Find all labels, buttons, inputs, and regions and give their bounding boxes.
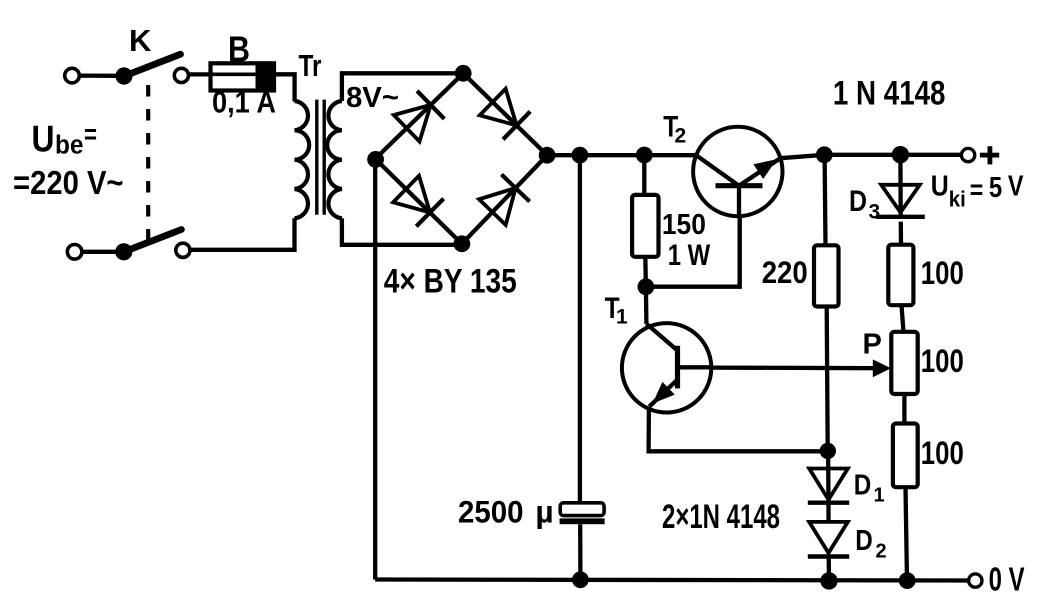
wire secondary bottom to bridge: [342, 218, 462, 245]
svg-text:1: 1: [616, 306, 628, 329]
wire resistor 220 to D1 node: [827, 307, 828, 452]
switch K bottom pole: [115, 230, 190, 261]
wire minus vertical from bridge left: [373, 159, 377, 580]
bridge diode D-a (upper left): [394, 91, 445, 142]
wire D3 to resistor 100a: [899, 222, 904, 245]
svg-text:P: P: [863, 329, 882, 361]
bridge diode D-b (upper right): [480, 89, 531, 140]
svg-text:3: 3: [869, 201, 881, 224]
label 0,1 A: [212, 85, 276, 120]
resistor 150 1W: [632, 195, 658, 257]
transistor T1: [622, 323, 712, 412]
label 100b: [921, 343, 964, 379]
label Tr: [299, 48, 322, 83]
label 150: [662, 209, 706, 241]
wire switch to fuse: [189, 72, 212, 76]
svg-text:K: K: [129, 23, 152, 58]
resistor 100c: [893, 424, 918, 488]
label D1: [854, 470, 885, 507]
wire resistor 100c to bottom rail: [906, 487, 908, 580]
node bridge top (AC): [455, 65, 472, 82]
svg-text:U: U: [931, 171, 949, 203]
output terminal 0V: [969, 574, 982, 587]
wire resistor 150 to node: [643, 257, 648, 287]
label 220: [762, 254, 808, 290]
resistor 100a: [888, 245, 913, 306]
label P: [863, 329, 882, 361]
bridge wire top-right: [463, 73, 547, 155]
svg-text:=: =: [970, 174, 984, 205]
bridge wire bottom-left: [375, 159, 462, 244]
label K: [129, 23, 152, 58]
svg-text:1 N 4148: 1 N 4148: [833, 74, 946, 112]
label 1 N 4148: [833, 74, 946, 112]
node bridge right (plus): [539, 147, 556, 164]
label 2500 u: [458, 493, 554, 529]
wire positive rail left part: [547, 153, 696, 157]
label 100a: [921, 255, 964, 291]
node D3 branch: [892, 146, 909, 163]
label T1: [605, 292, 628, 329]
svg-text:D: D: [855, 525, 873, 557]
wire D2 to bottom rail: [827, 557, 832, 581]
svg-text:1 W: 1 W: [668, 239, 711, 272]
svg-text:U: U: [32, 118, 55, 160]
svg-text:be: be: [55, 132, 84, 160]
wire resistor 100a to potentiometer: [902, 305, 904, 332]
node 220 resistor branch: [816, 146, 833, 163]
svg-text:D: D: [849, 185, 867, 218]
label D3: [849, 185, 880, 224]
svg-text:5: 5: [989, 172, 1002, 204]
svg-text:2×1N 4148: 2×1N 4148: [662, 498, 780, 536]
svg-text:V: V: [1008, 171, 1024, 203]
svg-text:2: 2: [675, 125, 687, 148]
svg-text:=: =: [84, 119, 97, 150]
diode D2: [808, 522, 849, 557]
label T2: [663, 110, 686, 147]
wire T1 emitter down and right to D1 node: [649, 407, 828, 452]
wire potentiometer to resistor 100c: [902, 394, 906, 424]
svg-text:8V~: 8V~: [346, 82, 399, 114]
svg-text:0 V: 0 V: [989, 561, 1025, 598]
wire primary bottom to switch: [190, 218, 295, 250]
svg-text:220: 220: [762, 254, 808, 290]
label B: [228, 29, 250, 70]
svg-text:ki: ki: [949, 186, 966, 211]
capacitor 2500u electrolytic: [560, 503, 605, 524]
resistor 220: [814, 245, 839, 306]
svg-text:4× BY 135: 4× BY 135: [384, 263, 517, 301]
svg-text:=220 V~: =220 V~: [13, 165, 124, 202]
label plus sign: [980, 146, 999, 164]
input terminal top: [65, 68, 116, 83]
label D2: [855, 525, 886, 563]
svg-text:100: 100: [921, 343, 964, 379]
svg-text:100: 100: [921, 435, 964, 471]
wire D1 to D2: [826, 503, 830, 522]
wire fuse to transformer: [274, 74, 295, 101]
label 8V~: [346, 82, 399, 114]
wire junction to T2 base: [646, 217, 740, 287]
wire rail to resistor 150: [642, 155, 646, 196]
output terminal plus: [961, 148, 974, 161]
input terminal bottom: [67, 245, 116, 260]
wire T1 base to potentiometer wiper: [711, 359, 891, 377]
node bridge left (minus): [367, 151, 384, 168]
label 0 V: [989, 561, 1025, 598]
node 100 resistor bottom: [899, 572, 916, 589]
label 100c: [921, 435, 964, 471]
label 1 W: [668, 239, 711, 272]
wire rail to D3: [898, 155, 903, 218]
transformer Tr primary winding: [295, 101, 310, 218]
switch K top pole: [115, 54, 188, 84]
svg-text:2: 2: [876, 541, 887, 563]
bridge wire bottom-right: [462, 155, 547, 244]
svg-text:B: B: [228, 29, 250, 70]
transformer Tr core: [317, 100, 324, 215]
node bridge bottom (AC): [454, 235, 471, 252]
svg-text:D: D: [854, 470, 872, 502]
label 2x1N 4148: [662, 498, 780, 536]
svg-text:2500: 2500: [458, 493, 524, 529]
wire rail to capacitor: [578, 155, 582, 503]
label Uki=5V: [931, 171, 1024, 212]
node D2 cathode bottom: [820, 572, 837, 589]
svg-text:0,1 A: 0,1 A: [212, 85, 276, 120]
wire bottom rail: [375, 580, 968, 581]
wire capacitor to bottom rail: [578, 524, 583, 580]
svg-text:µ: µ: [535, 493, 553, 529]
label Ube=220V: [13, 118, 124, 202]
switch K mechanical link (dashed): [146, 85, 150, 243]
fuse B 0,1A: [211, 63, 275, 90]
transistor T2: [693, 127, 782, 217]
wire secondary top to bridge: [342, 73, 463, 101]
bridge diode D-c (lower left): [393, 176, 444, 227]
bridge diode D-d (lower right): [479, 175, 530, 225]
wire positive rail right part: [780, 155, 961, 158]
potentiometer P 100: [891, 332, 917, 394]
node 150/T2-base/T1-collector junction: [638, 278, 655, 295]
node 150 resistor branch: [636, 147, 653, 164]
diode D3: [876, 185, 925, 217]
bridge wire top-left: [375, 73, 463, 159]
wire junction to T1 collector: [644, 287, 649, 324]
node capacitor branch: [572, 147, 589, 164]
node 220/T1-emitter/D1 junction: [820, 443, 836, 459]
wire node to D1: [826, 451, 831, 503]
diode D1: [808, 469, 849, 503]
node capacitor bottom: [572, 571, 589, 588]
svg-text:100: 100: [921, 255, 964, 291]
svg-text:150: 150: [662, 209, 706, 241]
label 4x BY 135: [384, 263, 517, 301]
svg-text:1: 1: [874, 485, 885, 507]
wire rail to resistor 220: [822, 155, 827, 246]
transformer Tr secondary winding: [327, 101, 342, 218]
svg-text:Tr: Tr: [299, 48, 322, 83]
